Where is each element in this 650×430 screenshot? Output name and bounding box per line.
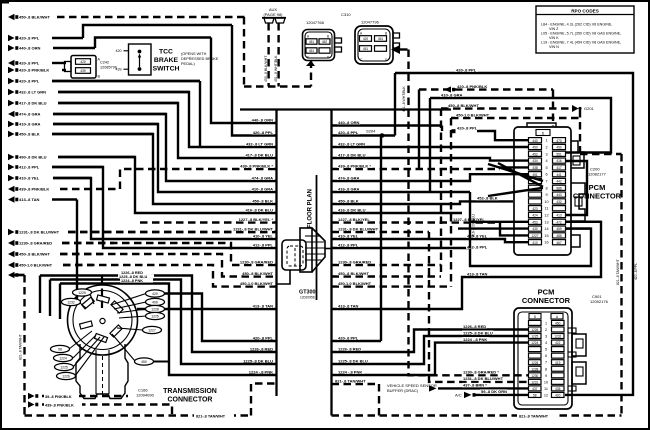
wire 410 GRA vertical x430 [429, 98, 431, 192]
svg-text:1226-.8 RED: 1226-.8 RED [338, 346, 361, 351]
svg-text:1225-.8 DK BLU: 1225-.8 DK BLU [338, 358, 368, 363]
svg-text:453: 453 [532, 220, 538, 224]
svg-text:(OPENS WITH: (OPENS WITH [181, 52, 207, 56]
PCM C901 pin row 4 (1224/422) [529, 340, 565, 345]
svg-text:12092176: 12092176 [590, 299, 609, 304]
svg-text:450-.8 BLK/WHT: 450-.8 BLK/WHT [19, 252, 50, 257]
wire 921 TAN/WHT dashed stub [332, 383, 380, 385]
label 420-.8 PPL left of divider [252, 130, 275, 135]
arrow A/C [464, 392, 472, 398]
svg-text:B: B [385, 32, 387, 36]
svg-text:1229: 1229 [78, 291, 86, 295]
wire left dashed vertical x24 [23, 275, 25, 416]
TCC switch arm [139, 56, 141, 67]
wire 420 oval to 420 PPL row [165, 294, 277, 342]
svg-text:A: A [307, 35, 310, 39]
svg-text:7: 7 [545, 180, 547, 184]
wire 412 PPL route [52, 167, 277, 248]
PCM C200 pin row 4 (434/416) [529, 158, 566, 163]
svg-text:1224: 1224 [59, 357, 67, 361]
label 921 TAN/WHT bottom left [194, 413, 234, 419]
wire 1230 dashed right bus [332, 264, 442, 266]
svg-text:470: 470 [556, 139, 562, 143]
svg-text:D: D [542, 131, 545, 135]
junction S204 [380, 133, 385, 138]
svg-text:39-.8 PNK/BLK: 39-.8 PNK/BLK [45, 395, 72, 399]
wire 474 GRA right bus [332, 174, 530, 181]
svg-text:2: 2 [545, 328, 547, 332]
PCM C200 D header [536, 130, 550, 136]
PCM C901 pin row 12 (58/420) [529, 392, 565, 397]
label 412 PPL right [337, 242, 360, 247]
svg-text:1231-.8 DK BLU/WHT: 1231-.8 DK BLU/WHT [233, 226, 274, 231]
wire 432 LT GRN right bus to pin2 [332, 146, 530, 148]
wire 420 PPL vertical x395 [394, 73, 396, 136]
label 410-.8 YEL left of divider [252, 233, 275, 238]
svg-text:12047768: 12047768 [306, 20, 325, 25]
wire 413 TAN right bus [332, 222, 602, 309]
svg-text:442: 442 [556, 180, 562, 184]
PCM C901 pin row 6 (/) [529, 353, 565, 358]
label 413 TAN right [337, 303, 360, 308]
PCM C200 pin row 3 (452/551) [529, 151, 566, 156]
connector 12047796 pin 451 [375, 36, 387, 42]
svg-text:439: 439 [116, 68, 122, 72]
svg-text:413-.8 TAN: 413-.8 TAN [338, 303, 358, 308]
svg-text:1230-.8 GRA/RED: 1230-.8 GRA/RED [19, 241, 52, 246]
svg-text:1224 -.8 PNK: 1224 -.8 PNK [249, 369, 273, 374]
transmission oval label 1227 [143, 326, 162, 333]
svg-text:450-.8 BLK/WHT: 450-.8 BLK/WHT [264, 55, 268, 82]
label 1230-.8 GRA/RED left of divider [240, 259, 274, 264]
wire 451-.8 WHT/BLK dashed drop aux [277, 23, 279, 87]
label 450-1.0 right [337, 281, 372, 286]
svg-text:409: 409 [152, 301, 158, 305]
svg-text:1230-.8 GRA/RED: 1230-.8 GRA/RED [338, 259, 371, 264]
svg-text:821-.8 TAN/WHT: 821-.8 TAN/WHT [616, 259, 620, 285]
svg-text:5: 5 [545, 348, 547, 352]
label 1231 right [337, 226, 379, 231]
wire 432 LT GRN route [58, 92, 277, 147]
wire 417 DK BLU right bus [332, 158, 530, 161]
floor plan bridge [240, 108, 451, 110]
svg-text:439-.8 PNK/BLK: 439-.8 PNK/BLK [45, 403, 74, 407]
TCC switch contact bottom [138, 67, 142, 71]
svg-text:D: D [534, 315, 537, 319]
svg-text:420-.8 PPL: 420-.8 PPL [253, 130, 274, 135]
label 439-.8 PNK/BLK * left of divider [239, 163, 274, 168]
svg-text:4: 4 [545, 159, 547, 163]
svg-text:CONNECTOR: CONNECTOR [522, 296, 571, 305]
svg-text:450-.8 BLK/WHT: 450-.8 BLK/WHT [19, 15, 50, 20]
connector C242 body [71, 56, 96, 79]
TCC brake switch box [129, 44, 152, 75]
svg-text:1227: 1227 [148, 329, 156, 333]
svg-text:452: 452 [532, 152, 538, 156]
PCM C901 pin row 5 (/) [529, 347, 565, 352]
wire 921 TAN/WHT dashed vertical x379 [378, 384, 380, 416]
PCM C200 pin row 1 (440/470) [529, 138, 566, 143]
wire pcm pin13 feed [470, 221, 529, 223]
svg-text:410-.8 YEL: 410-.8 YEL [19, 176, 40, 181]
wire pcm2 pin12 feed 59 DK GRN [475, 394, 529, 396]
connector 12047768 pin 451 [306, 39, 317, 44]
ground G201 arrow [572, 105, 579, 112]
PCM C200 body [514, 127, 571, 255]
svg-text:450: 450 [555, 322, 561, 326]
arrow into 12047796 [391, 45, 400, 54]
svg-text:450-1.0 BLK/WHT: 450-1.0 BLK/WHT [338, 281, 372, 286]
label 450-1.0 BLK/WHT left of divider [240, 281, 274, 286]
label 39 PNK/BLK [44, 393, 79, 399]
svg-text:VIN Z: VIN Z [549, 27, 559, 31]
svg-text:417-.8 DK BLU: 417-.8 DK BLU [338, 152, 366, 157]
svg-text:L19 - ENGINE, 7.4L (454 CID) V: L19 - ENGINE, 7.4L (454 CID) V8 GAS ENGI… [541, 41, 621, 45]
floor plan divider right [330, 109, 332, 416]
svg-text:420-.8 PNK/BLK: 420-.8 PNK/BLK [19, 68, 49, 73]
wire 450-.8 BLK/WHT y17 [8, 14, 246, 20]
svg-text:L05 - ENGINE, 5.7L (350 CID) V: L05 - ENGINE, 5.7L (350 CID) V8 GAS ENGI… [541, 32, 621, 36]
svg-text:417: 417 [556, 166, 562, 170]
svg-text:8: 8 [545, 367, 547, 371]
PCM C901 pin row 2 (1226/) [529, 327, 565, 332]
svg-text:1227-.8 BLK/YEL: 1227-.8 BLK/YEL [338, 217, 370, 222]
svg-text:B: B [327, 35, 329, 39]
svg-text:13: 13 [544, 220, 548, 224]
svg-text:1230: 1230 [531, 374, 538, 378]
wire bottom dashed left [25, 414, 252, 416]
label 450 BLK/WHT right [337, 271, 369, 276]
wire dashed from arrow [400, 48, 409, 50]
svg-text:450-1.0 BLK/WHT: 450-1.0 BLK/WHT [19, 263, 53, 268]
wire 420-.8 PNK/BLK y70 [8, 67, 66, 73]
label 450 BLK/WHT top [447, 103, 479, 108]
svg-text:420-.8 PPL: 420-.8 PPL [338, 335, 359, 340]
wire 420 PPL S204 vertical x381 [380, 136, 382, 342]
transmission oval label 1225 [55, 363, 74, 370]
wire stub y275 [8, 272, 25, 278]
svg-text:420-.8 PPL: 420-.8 PPL [19, 36, 40, 41]
transmission connector center [100, 318, 105, 323]
wire 1231-.8 DK BLU/WHT y232 [8, 229, 277, 235]
wire 413-.8 TAN y199.5 [8, 196, 77, 202]
RPO codes separator [536, 14, 634, 16]
wire 490 DK BLU route [58, 157, 277, 213]
label 1227 BLK/YEL at pcm [452, 217, 486, 222]
wire 420-.8 PPL y81 [8, 78, 200, 84]
PCM C200 pin row 9 (/443) [529, 192, 566, 197]
PCM C901 pin row 10 (1231/) [529, 379, 565, 384]
wire 410 GRA route [53, 124, 277, 192]
wire 412-.8 PPL y167 [8, 164, 103, 170]
transmission spoke 12 [112, 334, 135, 361]
transmission spoke 11 [117, 328, 143, 330]
svg-text:(PAGE 98): (PAGE 98) [263, 12, 283, 17]
svg-text:5: 5 [545, 166, 547, 170]
svg-text:BRAKE: BRAKE [154, 57, 179, 64]
label 416-.8 DK BLU left of divider [245, 207, 274, 212]
PCM C200 pin row 8 (/986) [529, 185, 566, 190]
connector 12047768 body [303, 30, 335, 61]
wire 416 DK BLU vertical x470 [469, 192, 471, 248]
svg-text:821-.8 TAN/WHT: 821-.8 TAN/WHT [196, 414, 226, 418]
label 437 BRN [462, 383, 489, 388]
svg-text:430: 430 [532, 227, 538, 231]
svg-text:412-.8 PPL: 412-.8 PPL [338, 242, 359, 247]
wire 410-.8 GRA y124 [8, 121, 158, 127]
wire 1227 BLK/YEL dashed right bus [332, 221, 501, 223]
GT300 cone ridges [305, 235, 321, 237]
wire pcm pin8 diagonal b [498, 163, 543, 187]
transmission pin slot 6 [94, 334, 107, 343]
svg-text:L84 - ENGINE, 4.3L (262 CID) V: L84 - ENGINE, 4.3L (262 CID) V6 ENGINE, [541, 23, 612, 27]
svg-text:459: 459 [556, 227, 562, 231]
svg-text:1231-.8 DK BLU/WHT: 1231-.8 DK BLU/WHT [19, 230, 60, 235]
svg-text:3: 3 [545, 152, 547, 156]
svg-text:450: 450 [556, 146, 562, 150]
svg-text:450-1.0 BLK/WHT: 450-1.0 BLK/WHT [240, 281, 274, 286]
svg-text:9: 9 [545, 193, 547, 197]
svg-text:1231-.8 DK BLU/WHT: 1231-.8 DK BLU/WHT [338, 226, 379, 231]
svg-text:490-.8 DK BLU: 490-.8 DK BLU [19, 155, 47, 160]
svg-text:B: B [98, 75, 101, 79]
svg-text:410: 410 [532, 241, 538, 245]
svg-text:1: 1 [545, 139, 547, 143]
PCM C200 pin row 16 (410/467) [529, 240, 566, 245]
svg-text:12: 12 [544, 393, 548, 397]
svg-text:3: 3 [545, 335, 547, 339]
arrow 39 PNK/BLK [28, 393, 35, 399]
PCM C200 pin row 14 (430/459) [529, 226, 566, 231]
TCC switch pin 439 stub [124, 68, 129, 70]
PCM C901 body [514, 308, 572, 409]
svg-text:1226: 1226 [531, 361, 538, 365]
svg-text:1230-.8 GRA/RED *: 1230-.8 GRA/RED * [463, 370, 499, 375]
wire 439 PNK/BLK dashed bottom [42, 405, 172, 416]
svg-text:1224 -.8 PNK: 1224 -.8 PNK [463, 337, 487, 342]
wire 450 BLK/WHT dashed right bus [332, 275, 442, 277]
PCM C200 pin row 10 (/432) [529, 199, 566, 204]
PCM C200 pin row 6 (451/441) [529, 172, 566, 177]
svg-text:419: 419 [555, 361, 561, 365]
label 450 BLK right [337, 198, 360, 203]
wire 39 PNK/BLK dashed [42, 395, 128, 397]
svg-text:439: 439 [80, 69, 86, 73]
label 417-.8 DK BLU left of divider [245, 152, 274, 157]
wire 821 TAN/WHT dashed vertical x621 [620, 154, 622, 416]
connector 12047796 tabs [393, 33, 400, 38]
svg-text:420-.8 PPL: 420-.8 PPL [457, 125, 478, 130]
PCM C200 pin row 7 (/442) [529, 178, 566, 183]
label 439 PNK/BLK bottom [44, 402, 82, 408]
wire 420-.8 PPL y38 [8, 35, 83, 41]
label 474 GRA right [337, 175, 360, 180]
label 420-.8 PPL left of divider [252, 335, 275, 340]
wire 450-1.0 BLK/WHT y265 [8, 262, 93, 268]
transmission pin slot 1 [82, 297, 95, 309]
floor plan inner line [316, 175, 318, 300]
svg-text:413-.8 TAN: 413-.8 TAN [253, 303, 273, 308]
transmission spoke 7 [111, 294, 146, 306]
svg-text:1224-.8 PNK: 1224-.8 PNK [121, 279, 143, 283]
GT300 drop wire [277, 270, 291, 284]
connector C242 pin 420 [76, 59, 91, 65]
transmission spoke 9 [117, 309, 146, 313]
svg-text:474-.8 GRA: 474-.8 GRA [19, 112, 40, 117]
svg-text:1227: 1227 [531, 234, 538, 238]
svg-text:420-.8 PPL: 420-.8 PPL [253, 335, 274, 340]
wire 450 BLK/WHT dashed vertical x441 [440, 109, 442, 277]
svg-text:451: 451 [378, 37, 384, 41]
label 1225 DK BLU trans [118, 274, 154, 279]
svg-text:410-.8 GRA: 410-.8 GRA [441, 92, 462, 97]
transmission pin slot 4 [80, 321, 93, 329]
svg-text:1227-.8 BLK/YEL *: 1227-.8 BLK/YEL * [239, 217, 274, 222]
arrow 439 PNK/BLK bottom [28, 401, 35, 407]
wire 490-.8 DK BLU y157 [8, 154, 135, 160]
floor plan divider left [275, 109, 277, 396]
svg-text:452: 452 [322, 40, 328, 44]
wire dashed vertical x408 [407, 50, 409, 266]
wire 420 PPL run y81 [52, 80, 200, 82]
wire 474 GRA route [53, 114, 277, 181]
svg-text:4: 4 [545, 341, 547, 345]
label 440 ORN right [337, 120, 360, 125]
wire 413 TAN run y309 [137, 308, 277, 310]
label 1225 DK BLU [337, 358, 368, 363]
label 412 PPL at pcm [466, 244, 489, 249]
svg-text:VIN N: VIN N [549, 45, 559, 49]
wire dashed drop from 12047768 [310, 61, 312, 87]
wire 416 GRA right bus [332, 191, 471, 193]
transmission spoke 3 [69, 331, 92, 349]
wire pcm pin8 diagonal [488, 188, 543, 196]
svg-text:11: 11 [545, 207, 549, 211]
svg-text:440: 440 [532, 139, 538, 143]
label 474-.8 GRA left of divider [252, 175, 275, 180]
label 1230 right [337, 259, 371, 264]
wire pcm pin4 right 416 [566, 161, 587, 215]
wire pcm pin7 diagonal [488, 164, 543, 181]
wire G-net dashed vertical x580 [579, 110, 581, 154]
svg-text:410-.8 YEL: 410-.8 YEL [338, 233, 359, 238]
svg-text:450-.8 BLK/WHT: 450-.8 BLK/WHT [242, 271, 273, 276]
svg-text:58: 58 [533, 394, 537, 398]
wire pcm pin13 right loop [565, 221, 601, 223]
label 420 PNK/BLK top [456, 84, 487, 89]
label 1225-.8 DK BLU left of divider [243, 358, 274, 363]
svg-text:437: 437 [532, 387, 538, 391]
transmission spoke 6 [75, 337, 104, 376]
svg-text:8: 8 [545, 186, 547, 190]
svg-text:58: 58 [58, 348, 62, 352]
label 420 PPL top [455, 67, 478, 72]
transmission spoke 8 [114, 302, 146, 309]
svg-text:417-.8 DK BLU: 417-.8 DK BLU [19, 101, 47, 106]
label 1224 PNK [337, 369, 364, 374]
wire 1230 dashed vertical x408 lower [409, 265, 530, 375]
svg-text:1225-.8 DK BLU: 1225-.8 DK BLU [463, 330, 493, 335]
PCM C901 pin row 8 (1228/) [529, 366, 565, 371]
PCM C901 pin row 1 (/450) [529, 320, 565, 325]
svg-text:7: 7 [545, 361, 547, 365]
label 1224 -.8 PNK left of divider [247, 369, 274, 374]
transmission pin slot 3 [111, 301, 123, 313]
label 432 LT GRN right [337, 141, 366, 146]
svg-text:10: 10 [544, 380, 548, 384]
svg-text:821-.8 TAN/WHT: 821-.8 TAN/WHT [19, 334, 23, 360]
svg-text:451: 451 [532, 173, 538, 177]
svg-text:450: 450 [532, 146, 538, 150]
svg-text:1226-.8 RED: 1226-.8 RED [463, 324, 486, 329]
svg-text:12094090: 12094090 [136, 393, 155, 398]
svg-text:439-.8 PNK/BLK *: 439-.8 PNK/BLK * [240, 163, 273, 168]
svg-text:450-.8 BLK/WHT: 450-.8 BLK/WHT [338, 271, 369, 276]
svg-text:1224 -.8 PNK: 1224 -.8 PNK [338, 369, 362, 374]
svg-text:SWITCH: SWITCH [153, 66, 180, 73]
svg-text:10: 10 [544, 200, 548, 204]
svg-text:9: 9 [545, 374, 547, 378]
label 450-1.0 top [455, 112, 490, 117]
svg-text:439-.8 PNK/BLK *: 439-.8 PNK/BLK * [338, 163, 371, 168]
svg-text:412-.8 PPL: 412-.8 PPL [19, 165, 40, 170]
svg-text:432-.8 LT GRN: 432-.8 LT GRN [246, 141, 273, 146]
svg-text:1226: 1226 [531, 328, 538, 332]
svg-text:450-.8 BLK: 450-.8 BLK [252, 198, 273, 203]
svg-text:11: 11 [544, 387, 548, 391]
svg-text:821-.8 TAN/WHT: 821-.8 TAN/WHT [519, 414, 549, 418]
wire 439 PNK/BLK dashed right bus [332, 168, 501, 170]
label 59 DK GRN [480, 389, 507, 394]
RPO codes box [536, 6, 634, 53]
svg-text:420-.8 PNK/BLK: 420-.8 PNK/BLK [457, 84, 487, 89]
label 420 PPL pcm feed [456, 125, 479, 130]
svg-text:BUFFER (DRAC): BUFFER (DRAC) [387, 388, 419, 393]
label 439 PNK/BLK right [337, 163, 373, 168]
svg-text:467: 467 [556, 241, 562, 245]
svg-text:1231: 1231 [531, 380, 538, 384]
transmission oval label 420 [146, 290, 165, 297]
wire 1227 BLK/YEL dashed run [140, 221, 277, 223]
wire 474-.8 GRA y114 [8, 111, 166, 117]
PCM C901 right tabs [572, 334, 586, 356]
wire 440 ORN right bus [332, 124, 420, 126]
label 450-.8 BLK/WHT left of divider [242, 271, 274, 276]
svg-text:59-.8 DK GRN: 59-.8 DK GRN [481, 389, 507, 394]
wire 450-1.0 dashed vertical x451 [450, 118, 452, 287]
transmission spoke 4 [73, 335, 96, 358]
label 450-.8 BLK left of divider [252, 198, 275, 203]
transmission housing shaft lines [95, 350, 97, 394]
label 1227 BLK/YEL right [337, 217, 371, 222]
transmission connector outer circle [68, 285, 138, 355]
wire 412 PPL right bus [332, 229, 592, 266]
PCM C200 pin row 15 (1227/488) [529, 233, 566, 238]
svg-text:413-.8 TAN: 413-.8 TAN [467, 271, 487, 276]
wire 410 GRA top run [430, 98, 611, 153]
svg-text:416-.8 GRA: 416-.8 GRA [338, 186, 359, 191]
wire trans vertical x60 [59, 284, 61, 320]
wire dashed run y87 to conn 12047768 [244, 85, 311, 87]
label 410 YEL right [337, 233, 360, 238]
arrow 420 PNK/BLK [444, 86, 451, 92]
wire 417-.8 DK BLU y103 [8, 100, 178, 106]
label 1226 RED at pcm [462, 324, 487, 329]
svg-text:451: 451 [309, 49, 315, 53]
TCC switch contact top [138, 50, 142, 54]
wire trans vertical x50 [49, 280, 51, 317]
wire dashed corner x251 [251, 384, 277, 416]
